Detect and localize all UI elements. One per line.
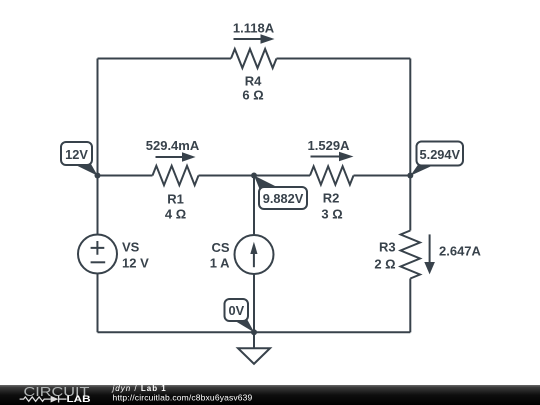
svg-text:1.529A: 1.529A: [308, 138, 351, 153]
current arrow 1.118A: [234, 34, 275, 43]
node callout 5.294V: [410, 142, 463, 176]
wire middle horizontal between R1 and R2: [199, 175, 311, 177]
wire top from R4 to right corner: [277, 58, 411, 60]
svg-text:1 A: 1 A: [210, 255, 230, 270]
svg-text:LAB: LAB: [67, 394, 92, 404]
footer logo diode triangle: [51, 396, 59, 403]
svg-text:2.647A: 2.647A: [439, 243, 482, 258]
node dot left middle: [95, 173, 101, 179]
VS plus sign: [91, 241, 105, 255]
footer bar: [0, 385, 540, 405]
wire right rail top segment: [409, 59, 411, 231]
svg-text:1.118A: 1.118A: [233, 20, 275, 35]
wire bottom rail: [98, 331, 411, 333]
svg-text:9.882V: 9.882V: [263, 191, 304, 206]
resistor R4: [231, 49, 276, 68]
svg-text:VS: VS: [122, 240, 140, 255]
wire middle horizontal right of R2: [354, 175, 411, 177]
current arrow 1.529A: [311, 152, 354, 161]
wire right rail bottom segment: [409, 279, 411, 333]
ground stem: [253, 332, 255, 348]
wire left rail bottom segment: [97, 274, 99, 333]
node callout 9.882V: [254, 176, 307, 210]
node dot right middle: [407, 173, 413, 179]
node dot bottom center: [251, 329, 257, 335]
svg-text:12 V: 12 V: [122, 255, 149, 270]
svg-text:2 Ω: 2 Ω: [374, 257, 395, 272]
svg-text:R3: R3: [379, 240, 396, 255]
resistor R1: [153, 166, 199, 185]
wire top from left corner to R4: [98, 58, 232, 60]
current arrow 2.647A: [424, 234, 435, 274]
resistor R2: [310, 166, 354, 184]
svg-text:6 Ω: 6 Ω: [242, 88, 263, 103]
svg-text:4 Ω: 4 Ω: [165, 207, 186, 222]
ground triangle: [238, 348, 270, 364]
wire middle vertical CS branch top: [253, 176, 255, 236]
svg-text:529.4mA: 529.4mA: [146, 138, 200, 153]
wire middle horizontal left of R1: [98, 175, 153, 177]
current arrow 529.4mA: [156, 152, 196, 161]
svg-text:http://circuitlab.com/c8bxu6ya: http://circuitlab.com/c8bxu6yasv639: [113, 392, 253, 402]
wire middle vertical CS branch bottom: [253, 274, 255, 332]
svg-text:R2: R2: [323, 191, 340, 206]
svg-text:0V: 0V: [228, 303, 244, 318]
svg-text:5.294V: 5.294V: [420, 147, 461, 162]
CS arrow shaft: [253, 253, 255, 267]
CS arrow head: [250, 242, 257, 254]
svg-text:3 Ω: 3 Ω: [321, 206, 342, 221]
node dot center middle: [251, 173, 257, 179]
svg-text:12V: 12V: [65, 147, 88, 162]
current source CS circle: [235, 235, 274, 274]
footer logo squiggle wire with resistor and diode: [20, 396, 67, 403]
svg-text:CS: CS: [211, 240, 229, 255]
svg-text:R4: R4: [245, 74, 262, 89]
wire left rail top segment: [97, 59, 99, 235]
voltage source VS circle: [78, 235, 117, 274]
node callout 0V: [225, 299, 255, 333]
VS minus sign: [91, 261, 106, 263]
resistor R3: [401, 231, 420, 279]
svg-text:R1: R1: [167, 191, 184, 206]
node callout 12V: [61, 142, 98, 176]
